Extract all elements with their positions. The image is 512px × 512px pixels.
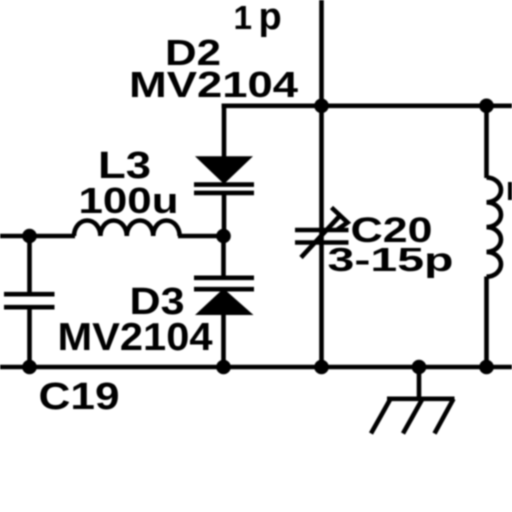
inductor right branch (487, 106, 502, 367)
capacitor C19 (4, 236, 55, 367)
label D2 (165, 32, 221, 73)
svg-text:3-15p: 3-15p (328, 242, 454, 279)
node junction ground (412, 360, 427, 375)
ground (371, 367, 455, 434)
label MV2104 (D2) (129, 64, 298, 105)
wire left segment at y=236 (0, 234, 75, 239)
label D3 (130, 280, 185, 322)
label 3-15p (328, 242, 454, 279)
label MV2104 (D3) (58, 316, 213, 359)
node junction D3 bottom (216, 360, 231, 375)
node junction D2/D3/L3 (216, 229, 231, 244)
wire vertical x=321.5 top to bottom rail (319, 0, 324, 367)
wire from L3 to center node (178, 234, 224, 239)
wire vertical from top rail to D2 anode (222, 104, 227, 159)
partial glyph right edge (508, 182, 512, 200)
node junction C20 bottom (314, 360, 329, 375)
node junction top rail x=321.5 (314, 99, 329, 114)
node junction C19 bottom (22, 360, 37, 375)
diode D2 varactor MV2104 (194, 156, 254, 236)
svg-text:MV2104: MV2104 (129, 64, 298, 105)
label L3 (98, 144, 151, 187)
label 1p (234, 0, 282, 38)
capacitor C20 variable (295, 208, 349, 258)
node junction C19 top (22, 229, 37, 244)
svg-text:C19: C19 (39, 375, 120, 417)
svg-text:p: p (259, 0, 282, 38)
label 100u (79, 180, 179, 221)
node junction top rail x=486.5 (479, 99, 494, 114)
label C19 (39, 375, 120, 417)
wire bottom rail y=367 (0, 365, 512, 370)
svg-text:1: 1 (234, 0, 253, 37)
svg-text:100u: 100u (79, 180, 179, 221)
node junction right inductor bottom (479, 360, 494, 375)
diode D3 varactor MV2104 (194, 236, 254, 367)
wire top rail y=105.8 (222, 104, 512, 109)
label C20 (351, 211, 433, 250)
svg-text:MV2104: MV2104 (58, 316, 213, 359)
inductor L3 (74, 220, 180, 236)
